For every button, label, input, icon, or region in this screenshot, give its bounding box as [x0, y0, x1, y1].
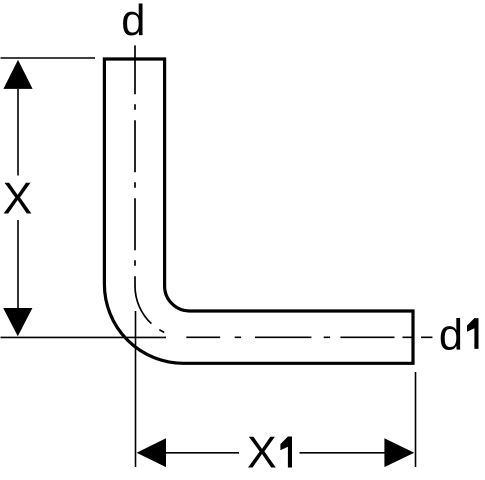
- pipe bend outline: [104, 59, 413, 363]
- arrow up (X): [3, 60, 32, 89]
- dimension line X upper segment: [17, 89, 19, 176]
- centerline axis d1 horizontal (dash-dot segments): [186, 336, 432, 338]
- centerline axis d vertical + bend (dash-dot): [135, 45, 165, 333]
- dimension line X1 left segment: [166, 452, 239, 454]
- arrow down (X): [3, 308, 32, 336]
- extension line top (X): [1, 57, 96, 59]
- extension line right (X1): [415, 372, 417, 467]
- svg-text:d: d: [121, 0, 145, 45]
- dimension line X lower segment: [17, 220, 19, 308]
- dimension line X1 right segment: [300, 452, 385, 454]
- arrow right (X1): [384, 438, 414, 467]
- extension line bottom (X): [1, 336, 167, 338]
- svg-text:X: X: [247, 429, 277, 478]
- arrow left (X1): [137, 438, 166, 467]
- svg-text:X: X: [3, 174, 33, 223]
- svg-text:d: d: [439, 311, 463, 359]
- extension line left (X1): [135, 311, 137, 467]
